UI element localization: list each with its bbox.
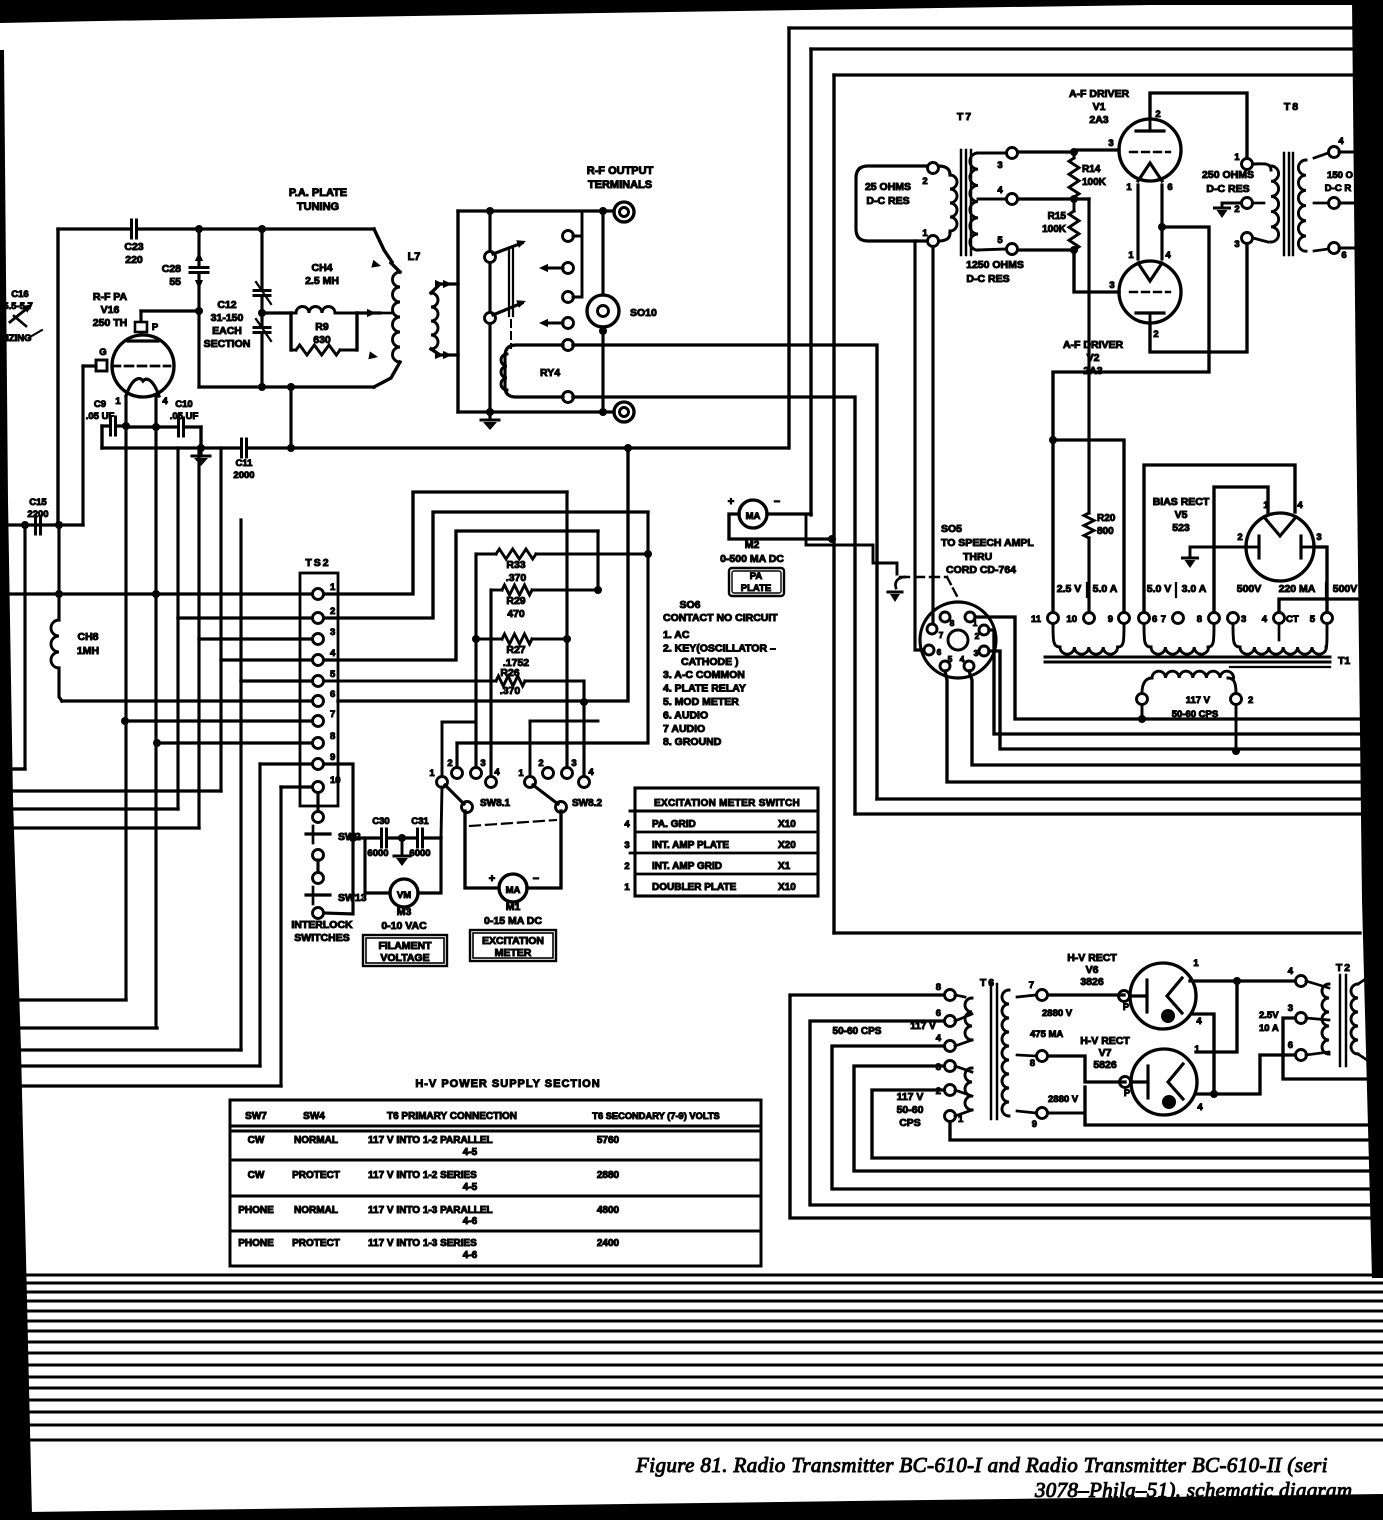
terminal T6 prim 6 [945,1016,956,1027]
wire V5 pin1 loop [1214,487,1268,612]
wire CH4 feed [262,311,291,314]
node junction pin6 x584 [580,698,588,706]
arrow L7 tap top [371,260,381,268]
table HV header sep [230,1125,761,1128]
tube V16 plate cap [135,322,147,332]
svg-text:117 V INTO 1-3 SERIES: 117 V INTO 1-3 SERIES [368,1238,477,1249]
wire SO10 drop [601,211,604,295]
wire staircase y1000 [20,998,126,1001]
svg-text:5: 5 [330,669,336,680]
wire bus y799 [877,797,1362,800]
wire pin9 riser [258,764,261,1066]
svg-text:6000: 6000 [367,848,388,859]
contact ant d1c3 [563,292,574,303]
node junction C15-x59 [55,521,63,529]
terminal TS2 pin 4 [313,655,324,666]
wire V6 pin4 drop [1193,1014,1214,1094]
svg-text:T7: T7 [957,111,973,123]
terminal T7 prim 2 [928,163,939,174]
svg-text:3: 3 [1316,532,1321,543]
terminal TS2 pin 1 [313,589,324,600]
svg-text:INT. AMP GRID: INT. AMP GRID [652,861,722,872]
svg-text:4-6: 4-6 [463,1250,478,1261]
wire plate to C28 branch [141,309,199,312]
wire ant bottom [458,410,614,413]
wire pivot1 drop [441,722,444,778]
svg-text:C9: C9 [94,399,106,410]
terminal interlock d [313,908,324,919]
contact ant d1c2 [563,263,574,274]
tube V5 plate left [1257,536,1260,558]
svg-text:3: 3 [1241,614,1246,625]
tube V5 plate right [1299,536,1302,558]
svg-text:A-F DRIVER: A-F DRIVER [1069,88,1130,100]
svg-text:T1: T1 [1338,655,1350,667]
capacitor C23 [130,220,133,238]
node junction V6 out [1233,977,1241,985]
wire bus top inner [834,73,1352,76]
svg-text:2: 2 [1155,109,1160,120]
svg-text:4: 4 [162,396,168,407]
svg-text:2: 2 [447,758,452,769]
svg-text:EXCITATION: EXCITATION [482,935,544,947]
wire T6 sec tap7 [1017,995,1036,997]
terminal TS2 pin 9 [313,759,324,770]
wire bus y933 [834,931,1360,934]
terminal TS2 pin 8 [313,738,324,749]
node junction x628 on 448 [624,444,632,452]
svg-text:C30: C30 [372,816,389,827]
wire T8 sec stubs [1339,151,1354,154]
svg-text:1: 1 [1193,958,1199,969]
svg-text:10: 10 [1066,614,1077,625]
svg-text:1: 1 [922,228,928,239]
wire T7-5 to R15 [1018,248,1074,251]
svg-text:10 A: 10 A [1259,1023,1279,1034]
svg-text:D-C R: D-C R [1325,183,1352,194]
svg-text:CPS: CPS [899,1117,921,1129]
svg-text:L7: L7 [408,251,421,263]
tube V5 filament notch [1264,517,1296,536]
svg-text:BIAS RECT: BIAS RECT [1153,496,1210,508]
svg-text:500V: 500V [1333,583,1358,595]
svg-text:M1: M1 [506,901,521,913]
svg-text:2: 2 [1153,329,1158,340]
svg-text:117 V INTO 1-2 PARALLEL: 117 V INTO 1-2 PARALLEL [368,1135,493,1146]
svg-text:2: 2 [624,861,629,872]
wire T7 box drop x933 [931,247,934,623]
svg-text:T8: T8 [1284,101,1300,113]
svg-text:PLATE: PLATE [741,583,771,594]
svg-text:PHONE: PHONE [238,1238,274,1249]
contact SW8.2 c2 [543,768,554,779]
wire plug dashed [900,576,947,578]
wire switch gang dashed [470,820,556,826]
terminal T8 pin3 [1242,233,1253,244]
svg-text:R-F OUTPUT: R-F OUTPUT [587,165,654,177]
coil L7 link [431,293,438,349]
wire pin5 riser [239,520,242,1050]
wire SO5 p1 bus [975,617,1360,719]
svg-text:2: 2 [922,176,927,187]
wire RY4 lower long [573,397,855,814]
winding T1 sec1 [1053,624,1060,647]
svg-text:2.5 V: 2.5 V [1057,583,1082,595]
svg-text:8: 8 [950,618,955,628]
svg-text:.370: .370 [506,572,527,584]
wire SW81c2 drop [455,743,458,769]
svg-text:INT. AMP PLATE: INT. AMP PLATE [652,840,729,851]
wire R15 to V2 grid [1074,250,1119,292]
terminal TS2 pin 2 [313,613,324,624]
node junction R27 right [563,635,571,643]
wire L7 bottom lead [374,362,400,387]
svg-text:0-500 MA DC: 0-500 MA DC [720,553,784,565]
wire TS2 pin2 left [178,616,312,619]
tube V2 plate bar [1136,311,1164,314]
svg-text:R14: R14 [1082,164,1101,175]
svg-text:6: 6 [1152,614,1157,625]
wire left stub y769 [12,767,25,770]
tube V6 envelope [1130,963,1196,1029]
terminal T7 sec 5 [1007,244,1018,255]
svg-text:R26: R26 [500,667,519,679]
svg-text:X20: X20 [778,840,796,851]
wire V6 pin1 out [1190,979,1295,982]
wire V16 filament pin4 vertical [154,396,157,1028]
svg-text:3: 3 [974,648,979,658]
svg-text:3: 3 [1108,138,1113,149]
node junction pin7 [121,717,129,725]
svg-text:P: P [1123,1002,1130,1013]
node junction left vertical pin1 [55,590,63,598]
wire V16 filament pin1 vertical [124,396,127,999]
svg-text:1: 1 [518,768,524,779]
terminal T8 pin1 [1242,159,1253,170]
tube V6 plate pin [1119,991,1130,1002]
svg-text:SW7: SW7 [245,1111,267,1122]
node junction C9 [122,422,130,430]
wire V1V2 cathode left [1136,185,1139,259]
wire M1 left [465,811,499,888]
svg-text:4800: 4800 [597,1205,620,1216]
svg-text:2880: 2880 [597,1170,620,1181]
node junction pin4 wire [1070,195,1078,203]
svg-text:470: 470 [507,608,525,620]
svg-text:V7: V7 [1099,1047,1112,1059]
relay RY4 coil loop [505,345,563,397]
svg-text:H-V RECT: H-V RECT [1067,952,1117,964]
switch SW8.2 wiper [556,802,567,813]
wire SW81 pivot to caps [441,787,442,838]
arrow L7 tap bottom [368,351,378,359]
table line h3 [630,852,818,855]
node junction pin8 [153,739,161,747]
wire T7 sec t3 [978,152,1006,155]
svg-text:CONTACT NO CIRCUIT: CONTACT NO CIRCUIT [663,612,778,624]
svg-text:6: 6 [936,1008,941,1019]
wire T6 sec tap9 [1017,1111,1036,1113]
wire T7 box drop x915 [915,241,923,650]
wire T6-7 to V6 plate [1048,993,1124,996]
svg-text:5: 5 [997,235,1003,246]
transformer T6 core [990,984,992,1119]
relay RY4 contact lower [563,392,574,403]
svg-text:EACH: EACH [212,325,242,337]
svg-text:3: 3 [330,627,335,638]
switch arm ant 1 [485,252,496,263]
terminal SO5 p3 [979,646,989,656]
resistor R29 [491,589,502,592]
wire between filament pins [126,425,156,428]
svg-text:SECTION: SECTION [204,338,251,350]
wire T6-6 left [810,1021,1374,1205]
wire x291 riser [289,387,292,448]
wire T6-8 to V7 plate [1048,1056,1125,1082]
scan artifact bottom black bar [0,1494,1383,1520]
svg-text:VM: VM [397,890,411,901]
svg-text:475 MA: 475 MA [1030,1029,1063,1040]
transformer T7 secondary [970,153,978,250]
meter M3 [390,879,418,907]
svg-text:R27: R27 [506,644,525,656]
contact SW8.1 c4 [486,777,497,788]
wire pin1 drop to R27 [565,492,568,639]
terminal T1 4 [1274,613,1285,624]
table line h4 [635,873,818,876]
svg-text:220: 220 [125,254,143,266]
wire x25 down [12,525,25,769]
wire M2 right drop [806,514,897,574]
terminal T2 3 [1296,1013,1307,1024]
svg-text:T6: T6 [980,977,996,989]
svg-text:C31: C31 [411,816,429,827]
wire CH4R9 to L7 [357,311,380,314]
svg-text:CW: CW [248,1135,265,1146]
wire staircase y1028 [21,1026,157,1029]
svg-text:4: 4 [1297,500,1303,511]
svg-text:1: 1 [330,582,336,593]
table EXCITATION METER SWITCH box [635,788,818,896]
ground caps [401,838,404,856]
wire cathode to fil bus [1053,227,1209,612]
wire TS2 pin4 left [221,658,312,661]
terminal T1 5 [1322,613,1333,624]
svg-text:31-150: 31-150 [211,312,244,324]
arrow link top [443,280,452,288]
capacitor C12 section A variable [254,290,270,297]
terminal T1 11 [1048,613,1059,624]
svg-text:8: 8 [1030,1058,1035,1069]
svg-text:2400: 2400 [597,1238,620,1249]
wire T7-3 to V1 grid [1018,150,1074,153]
node junction cap row left [349,834,357,842]
svg-text:3.0 A: 3.0 A [1182,583,1207,595]
svg-text:7: 7 [1029,980,1034,991]
svg-text:V16: V16 [101,304,120,316]
svg-text:8. GROUND: 8. GROUND [663,736,722,748]
capacitor C9 [109,417,112,435]
svg-text:−: − [533,873,539,885]
terminal TS2 pin 5 [313,676,324,687]
svg-text:METER: METER [495,947,532,959]
svg-text:117 V: 117 V [1186,695,1211,706]
transformer T7 core [960,150,962,255]
wire T2 sec box [1358,976,1370,984]
node junction fil pin4 x pin1wire [152,590,160,598]
wire T6-4 left [832,1046,1374,1189]
terminal interlock b [313,850,324,861]
svg-text:9: 9 [330,752,335,763]
svg-text:CH8: CH8 [77,631,98,643]
tube V2 envelope [1119,261,1181,323]
socket SO5 body [920,602,996,678]
wire pin2 loop [324,512,648,618]
winding T1 sec2 [1144,624,1151,647]
winding T1 primary [1142,678,1152,693]
svg-text:INTERLOCK: INTERLOCK [291,919,353,931]
terminal T1 3 [1228,613,1239,624]
svg-text:D-C RES: D-C RES [1206,183,1249,195]
wire TS2 pin6 left [62,699,312,702]
svg-text:CORD CD-764: CORD CD-764 [946,564,1016,576]
terminal T1 prim 2 [1231,694,1242,705]
svg-text:2A3: 2A3 [1089,114,1108,126]
wire pin4 riser [219,448,222,791]
wire staircase y1066 [22,1064,260,1067]
svg-text:SW8.1: SW8.1 [480,798,510,809]
wire TS2 pin5 left [241,679,312,682]
wire M2 right [767,512,811,515]
switch SW8.1 wiper [462,802,473,813]
terminal T6 prim 2 [945,1085,956,1096]
svg-text:PROTECT: PROTECT [292,1238,340,1249]
ground antenna [488,412,491,420]
svg-text:CATHODE ): CATHODE ) [681,656,739,668]
svg-text:117 V INTO 1-2 SERIES: 117 V INTO 1-2 SERIES [368,1170,477,1181]
svg-text:MA: MA [746,511,761,522]
svg-text:3: 3 [624,840,629,851]
winding T1 sec3 [1233,624,1240,647]
wire pin2 riser [176,448,179,809]
svg-text:6000: 6000 [409,848,430,859]
wire T8 l bot [1253,238,1268,242]
svg-text:C23: C23 [124,241,143,253]
switch SW2 [306,832,330,835]
svg-text:X10: X10 [778,882,796,893]
node junction CH4 left [258,309,266,317]
svg-text:6: 6 [330,689,335,700]
svg-text:7: 7 [939,630,944,640]
tube V6 filament [1167,978,1182,1013]
svg-text:SWITCHES: SWITCHES [294,932,349,944]
tube V6 fil dot [1161,1009,1175,1023]
tube V7 plate [1132,1080,1148,1083]
svg-text:4-5: 4-5 [463,1182,478,1193]
wire filament bus long [102,446,788,449]
wire left stub y791 [10,789,221,792]
svg-text:EXCITATION METER SWITCH: EXCITATION METER SWITCH [654,798,800,809]
terminal SO5 p6 [924,645,934,655]
switch arm ant 2 [485,313,496,324]
terminal T1 8 [1209,613,1220,624]
svg-text:100K: 100K [1042,224,1067,235]
svg-text:.05 UF: .05 UF [86,411,115,422]
wire M1 right [527,811,561,888]
node junction R33 right [644,550,652,558]
svg-text:3826: 3826 [1080,976,1104,988]
transformer T2 prim coil [1322,984,1329,1054]
svg-text:.05 UF: .05 UF [170,411,199,422]
svg-text:7 AUDIO: 7 AUDIO [663,723,705,735]
wire T8 l top [1253,164,1271,170]
svg-text:SO6: SO6 [679,599,700,611]
node junction C15-x25 [21,521,29,529]
wire CH4-R9 right bar [355,313,358,350]
contact SW8.2 c4 [579,777,590,788]
contact SW8.1 c3 [471,768,482,779]
node junction V7 pin4 [1210,1090,1218,1098]
wire pivot2 drop [529,721,532,778]
capacitor C12 section B variable [254,327,270,334]
svg-text:800: 800 [1097,526,1114,537]
resistor R33 [476,553,496,556]
svg-text:T2: T2 [1336,962,1352,974]
node junction SO10 lower [599,327,607,335]
wire T7 sec t5 [978,249,1006,250]
terminal T6 prim 1 [945,1111,956,1122]
wire pin2 drop [646,512,649,554]
svg-text:C28: C28 [162,263,181,275]
svg-text:PA. GRID: PA. GRID [652,819,696,830]
meter M2 [739,500,767,528]
svg-text:P.A. PLATE: P.A. PLATE [289,187,347,199]
resistor R20 [1084,513,1094,538]
wire pin4 drop [596,531,599,590]
wire V5 pin4 loop [1144,465,1295,612]
switch gang link [508,249,510,316]
svg-text:3: 3 [1234,239,1239,250]
wire V1 grid [1074,148,1119,151]
capacitor C16 neutralizing [10,306,30,322]
wire T1 prim2 drop [1235,705,1238,751]
wire grid lead [83,364,96,367]
svg-text:M3: M3 [397,906,412,918]
transformer T6 sec coil [1002,990,1009,1116]
node junction ant bottom [486,408,494,416]
node junction tank bottom [258,383,266,391]
table line h2 [635,831,818,834]
svg-text:H-V POWER SUPPLY SECTION: H-V POWER SUPPLY SECTION [415,1078,600,1090]
svg-text:1: 1 [624,882,630,893]
transformer T6 prim coil [965,998,972,1040]
table HV box [230,1100,761,1266]
tube V7 fil dot [1162,1095,1176,1109]
svg-text:TERMINALS: TERMINALS [588,179,652,191]
svg-text:SO5: SO5 [941,523,962,535]
terminal interlock c [313,873,324,884]
svg-text:1250 OHMS: 1250 OHMS [966,259,1024,271]
switch SW8.2 pivot [525,777,536,788]
svg-text:CH4: CH4 [311,262,332,274]
terminal TS2 pin 3 [313,634,324,645]
svg-text:C16: C16 [11,289,28,300]
contact ant d2c1 [563,318,574,329]
svg-text:X1: X1 [778,861,791,872]
relay RY4 contact upper [563,340,574,351]
resistor R14 [1069,158,1079,197]
transformer T1 core [1045,656,1330,659]
